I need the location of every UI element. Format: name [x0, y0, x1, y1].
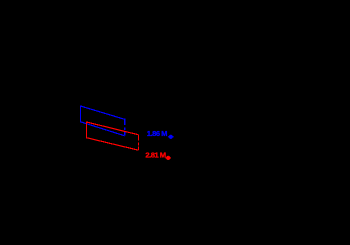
blue earth symbol subscript [168, 135, 174, 139]
blue dashed right edge [124, 119, 126, 136]
red earth symbol subscript [166, 156, 171, 160]
svg-text:1.86 M: 1.86 M [147, 129, 167, 138]
red box (2.81 Mearth) solid edges: top, left, bottom [87, 122, 139, 150]
blue box (2.56 Mearth) solid edges: top, left, bottom [81, 106, 125, 136]
svg-text:2.81 M: 2.81 M [145, 150, 165, 159]
red dashed right edge [138, 135, 140, 150]
